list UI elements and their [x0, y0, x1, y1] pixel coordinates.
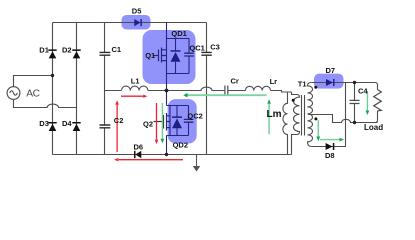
svg-text:C1: C1	[112, 45, 122, 54]
svg-text:QC2: QC2	[187, 112, 202, 121]
svg-text:T1: T1	[298, 80, 307, 89]
svg-text:D6: D6	[134, 143, 144, 152]
svg-text:AC: AC	[26, 88, 39, 99]
svg-text:Lm: Lm	[267, 109, 282, 120]
svg-text:C2: C2	[114, 116, 124, 125]
svg-text:QD2: QD2	[173, 140, 188, 149]
svg-text:D7: D7	[326, 66, 336, 75]
svg-text:C4: C4	[358, 87, 368, 96]
svg-text:Q2: Q2	[143, 120, 153, 129]
svg-text:Lr: Lr	[270, 77, 278, 86]
svg-text:D1: D1	[39, 46, 49, 55]
svg-text:L1: L1	[131, 76, 140, 85]
svg-text:Load: Load	[364, 123, 383, 132]
svg-text:Q1: Q1	[145, 51, 155, 60]
svg-text:D2: D2	[62, 46, 72, 55]
svg-text:D8: D8	[325, 151, 335, 160]
svg-text:C3: C3	[210, 42, 220, 51]
svg-text:QC1: QC1	[189, 44, 204, 53]
svg-text:QD1: QD1	[171, 29, 186, 38]
svg-text:D4: D4	[62, 119, 72, 128]
svg-text:Cr: Cr	[231, 76, 239, 85]
svg-text:D5: D5	[132, 7, 142, 16]
svg-text:D3: D3	[39, 119, 49, 128]
